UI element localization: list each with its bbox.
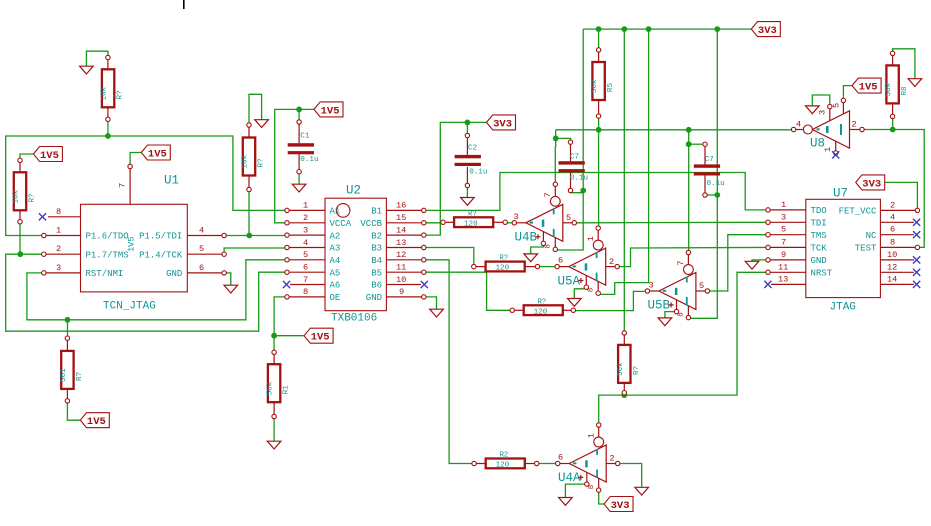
svg-text:1: 1 — [587, 433, 597, 438]
wire R7 bottom stub to net TDO — [107, 121, 109, 136]
svg-text:P1.7/TMS: P1.7/TMS — [86, 250, 129, 260]
svg-text:0.1u: 0.1u — [570, 175, 588, 183]
svg-text:7: 7 — [781, 237, 786, 247]
wire R? 120 second out to U5A in — [540, 266, 555, 268]
wire R? 120 third out to U5B in — [576, 291, 646, 310]
svg-text:R?: R? — [538, 298, 547, 306]
capacitor C7 first 0.1u — [559, 140, 589, 193]
svg-text:6: 6 — [890, 225, 895, 235]
svg-text:TCN_JTAG: TCN_JTAG — [103, 301, 156, 313]
node 1V5 flag VCCA — [314, 102, 343, 118]
ground U5B — [658, 318, 672, 326]
node 3V3 flag top line — [751, 22, 780, 37]
svg-text:15: 15 — [396, 213, 406, 223]
svg-text:B1: B1 — [371, 207, 382, 217]
svg-text:P1.5/TDI: P1.5/TDI — [139, 232, 182, 242]
svg-text:3V3: 3V3 — [611, 500, 630, 512]
svg-text:3: 3 — [514, 212, 519, 222]
svg-text:8: 8 — [588, 485, 596, 489]
svg-text:C2: C2 — [468, 145, 478, 153]
svg-text:R8: R8 — [901, 86, 909, 96]
node X U2.10 B6 unconnected — [421, 281, 428, 288]
junction top pull-up R7 at net TDO — [105, 133, 111, 139]
wire net TMS2: U5B out to U7.5 TMS — [710, 235, 768, 291]
svg-text:U5A: U5A — [558, 274, 581, 288]
op-amp U2 TXB0106 box — [285, 184, 426, 325]
svg-text:13: 13 — [396, 238, 406, 248]
wire junction down to C1 top — [298, 109, 300, 120]
svg-text:R2: R2 — [500, 452, 509, 460]
svg-text:8: 8 — [588, 288, 596, 292]
svg-text:C7: C7 — [570, 153, 579, 161]
svg-text:NC: NC — [866, 231, 877, 241]
resistor R? 561 — [60, 336, 84, 403]
op-amp U7 JTAG box — [766, 187, 920, 314]
svg-text:VCCB: VCCB — [360, 219, 382, 229]
wire R? 56k pull-up bottom to NRST — [623, 394, 625, 396]
svg-text:R?: R? — [468, 210, 477, 218]
svg-text:B3: B3 — [371, 244, 382, 254]
svg-text:1V5: 1V5 — [321, 105, 340, 117]
svg-text:0.1u: 0.1u — [707, 180, 725, 188]
wire U1.7 to 1V5 flag — [130, 153, 141, 165]
wire junction RST down to R? 561 top — [67, 320, 69, 336]
node X U7.6 unconnected — [913, 231, 920, 238]
junction C1 top 1V5 — [296, 107, 302, 113]
svg-text:14: 14 — [396, 225, 406, 235]
wire R5 top stub to 3V3 line — [598, 29, 600, 48]
svg-text:8: 8 — [56, 207, 61, 217]
node X U7.14 unconnected — [913, 281, 920, 288]
svg-text:P1.6/TDO: P1.6/TDO — [86, 232, 129, 242]
wire U4A out to ground — [620, 464, 641, 488]
wire U4B gnd pin to ground — [531, 246, 544, 254]
svg-text:11: 11 — [396, 263, 406, 273]
svg-text:R?: R? — [500, 255, 509, 263]
node X U8.1 unconnected — [832, 151, 839, 158]
resistor R? 120 second — [472, 255, 540, 273]
svg-text:2: 2 — [852, 119, 857, 129]
svg-text:1: 1 — [781, 200, 786, 210]
junction C7 first bottom on 3V3 drop — [580, 188, 586, 194]
junction C7 second top on drop — [686, 141, 692, 147]
svg-text:12: 12 — [396, 250, 406, 260]
wire net B1: U2.16 up over to U7.1 TDO — [424, 173, 768, 211]
junction 3V3 at U5A vcc drop — [646, 26, 652, 32]
wire R? 10k left top to 1V5 flag — [20, 154, 33, 159]
junction 3V3 at R5 — [596, 26, 602, 32]
svg-text:A3: A3 — [330, 244, 341, 254]
wire U5B gnd pin to ground — [665, 312, 677, 318]
wire 3V3 drop left: top line to U4B vcc pin — [555, 29, 583, 250]
wire 1V5S drop to U5B power pin — [687, 130, 689, 251]
svg-text:U2: U2 — [346, 184, 361, 198]
svg-text:1V5: 1V5 — [311, 332, 330, 344]
svg-text:GND: GND — [366, 293, 382, 303]
node 3V3 flag U4A — [604, 497, 633, 513]
junction C2 top 3V3 — [465, 120, 471, 126]
svg-text:8: 8 — [303, 287, 308, 297]
svg-text:3V3: 3V3 — [493, 118, 512, 130]
wire U1.6 GND to ground — [226, 273, 231, 285]
node X U7.13 unconnected — [764, 281, 771, 288]
junction TMS at pull-up — [17, 251, 23, 257]
svg-text:8: 8 — [890, 237, 895, 247]
ground U5A — [568, 299, 582, 307]
svg-text:11: 11 — [778, 262, 788, 272]
ground U4A left — [559, 498, 573, 506]
svg-text:3V3: 3V3 — [758, 25, 777, 37]
svg-text:4: 4 — [890, 212, 895, 222]
svg-text:5: 5 — [781, 225, 786, 235]
svg-text:6: 6 — [558, 453, 563, 463]
junction C7 second bottom — [714, 192, 720, 198]
wire net TCK: U1.5 jog to U2.A3 — [224, 248, 287, 252]
svg-text:3: 3 — [818, 110, 828, 115]
svg-text:4: 4 — [199, 226, 204, 236]
ground U2 GND — [430, 309, 444, 317]
svg-text:U1: U1 — [164, 174, 179, 188]
junction 1V5S bus at R5 — [596, 127, 602, 133]
svg-text:VCCA: VCCA — [330, 219, 352, 229]
svg-text:1: 1 — [586, 236, 596, 241]
wire net RST: U1.3 down-around to U2.A4 — [27, 260, 287, 320]
svg-text:GND: GND — [166, 269, 182, 279]
wire net TCK2: U5A out to U7.7 TCK — [619, 247, 768, 266]
node X U7.4 unconnected — [913, 219, 920, 226]
svg-text:561: 561 — [60, 368, 68, 382]
svg-text:14: 14 — [887, 274, 897, 284]
wire junction OE to 1V5 flag — [274, 335, 304, 337]
svg-text:FET_VCC: FET_VCC — [839, 207, 877, 217]
svg-text:R?: R? — [29, 193, 37, 202]
svg-text:TEST: TEST — [855, 244, 877, 254]
svg-text:TDI: TDI — [811, 219, 827, 229]
svg-text:R?: R? — [258, 158, 266, 167]
svg-text:10: 10 — [887, 250, 897, 260]
svg-text:A5: A5 — [330, 268, 341, 278]
svg-text:A4: A4 — [330, 256, 341, 266]
svg-text:TXB0106: TXB0106 — [331, 313, 377, 325]
svg-text:GND: GND — [811, 256, 827, 266]
wire R1 56k bottom to ground — [273, 419, 275, 442]
svg-text:B6: B6 — [371, 281, 382, 291]
svg-text:56k: 56k — [267, 381, 275, 395]
svg-text:C1: C1 — [300, 133, 310, 141]
svg-text:8: 8 — [545, 244, 553, 248]
capacitor C2 0.1u — [455, 133, 488, 187]
resistor R? 10k far-left — [13, 158, 37, 224]
node X U7.10 unconnected — [913, 256, 920, 263]
svg-text:NRST: NRST — [811, 269, 833, 279]
wire R7 top to ground — [86, 51, 108, 66]
junction OE pull-up — [271, 333, 277, 339]
wire C7 second bottom stub to junction — [707, 194, 717, 196]
svg-text:16: 16 — [396, 201, 406, 211]
svg-text:120: 120 — [534, 308, 548, 316]
op-amp U5A buffer — [555, 226, 619, 296]
svg-text:U7: U7 — [833, 187, 848, 201]
resistor R? 120 first — [441, 210, 508, 228]
wire net B4: U2.12 down to R2 120 — [424, 260, 472, 464]
ground U4A out — [635, 487, 649, 495]
wire U4A gnd pin to ground — [565, 484, 586, 497]
svg-text:B4: B4 — [371, 256, 382, 266]
ground U4B — [524, 254, 538, 262]
junction RST to R? 561 — [65, 317, 71, 323]
resistor R2 120 — [472, 452, 539, 470]
svg-text:9: 9 — [399, 287, 404, 297]
node 1V5 flag top-left — [33, 147, 62, 163]
svg-text:TDO: TDO — [811, 206, 827, 216]
svg-text:U4B: U4B — [515, 231, 538, 245]
svg-text:5: 5 — [699, 281, 704, 291]
wire net 3V3C: flag to C2 junction down to VCCB rail — [424, 122, 487, 235]
wire net TDO: U1.1 to top pull-up line to U2.A1 — [6, 136, 287, 236]
svg-text:C7: C7 — [705, 156, 714, 164]
svg-text:JTAG: JTAG — [830, 302, 856, 314]
svg-text:TMS: TMS — [811, 231, 827, 241]
svg-text:P1.4/TCK: P1.4/TCK — [139, 250, 183, 260]
svg-text:5: 5 — [566, 213, 571, 223]
ground R8 — [908, 79, 922, 87]
wire U4A vcc pin to 3V3 flag — [599, 492, 604, 504]
node 3V3 flag U7 FET_VCC — [856, 175, 885, 191]
svg-text:56k: 56k — [617, 362, 625, 376]
node X U1.8 unconnected — [39, 213, 46, 220]
node 1V5 flag U1 pin7 — [141, 145, 170, 161]
junction TDI at R? 10k mid — [246, 233, 252, 239]
svg-text:1: 1 — [823, 147, 833, 152]
wire junction down to C2 top — [466, 122, 468, 133]
svg-text:2: 2 — [610, 454, 615, 464]
wire R? 10k mid top to ground — [249, 94, 262, 125]
op-amp U5B buffer — [645, 250, 709, 319]
svg-text:R1: R1 — [283, 385, 291, 395]
resistor R? 120 third — [510, 298, 576, 316]
junction U8 out R8 — [890, 127, 896, 133]
svg-text:3: 3 — [649, 281, 654, 291]
svg-text:1V5: 1V5 — [148, 149, 167, 161]
junction C7 first top — [553, 136, 559, 142]
resistor R7 10k top-left — [101, 55, 125, 121]
frame tick top — [183, 0, 185, 9]
svg-text:TCK: TCK — [811, 244, 828, 254]
node 3V3 flag C2 — [487, 115, 516, 130]
wire net TDI: U1.4 to U2.A2 — [224, 235, 287, 237]
resistor R? 56k (NRST pull-up) — [617, 331, 641, 395]
wire U5A gnd pin to ground — [574, 289, 587, 299]
svg-text:120: 120 — [496, 265, 510, 273]
ground R1 — [267, 441, 281, 449]
op-amp U1 TCN_JTAG box — [42, 164, 227, 312]
svg-text:10: 10 — [396, 275, 406, 285]
wire U8 pin5 to 1V5 flag — [843, 86, 852, 99]
svg-text:2: 2 — [890, 200, 895, 210]
svg-text:B5: B5 — [371, 268, 382, 278]
ground C2 — [461, 198, 475, 206]
ground top-left — [80, 66, 94, 74]
svg-text:A6: A6 — [330, 281, 341, 291]
wire net OE: U2.OE to junction to 1V5 flag — [274, 297, 287, 351]
svg-text:R?: R? — [117, 90, 125, 99]
op-amp U4A buffer — [556, 423, 620, 493]
svg-text:3: 3 — [303, 225, 308, 235]
wire 3V3 drop through C7 second to U5B vcc pin — [690, 29, 717, 318]
svg-text:1: 1 — [303, 201, 308, 211]
wire net B3: U2.13 to R? 120 second — [424, 248, 474, 265]
wire C1 bottom to ground — [298, 174, 300, 184]
svg-text:OE: OE — [330, 293, 341, 303]
wire U2.15 VCCB to rail — [424, 222, 441, 224]
op-amp U4B buffer — [512, 182, 576, 252]
wire net 1V5S bus: C7 junction along to U8 input — [556, 130, 792, 147]
svg-text:U4A: U4A — [558, 471, 581, 485]
svg-text:7: 7 — [676, 261, 686, 266]
wire R? 561 bottom to 1V5 flag — [67, 402, 80, 420]
wire net TMS: U1.2 junction to left rail down to U2.A5 — [6, 254, 287, 331]
junction 1V5S bus at U5B power drop — [686, 127, 692, 133]
svg-text:R5: R5 — [607, 83, 615, 93]
capacitor C7 second 0.1u — [694, 142, 725, 197]
svg-text:2: 2 — [609, 257, 614, 267]
wire net TDI2: U4B out to U7.3 TDI — [577, 221, 769, 224]
svg-text:3: 3 — [781, 212, 786, 222]
svg-text:1V5: 1V5 — [87, 416, 106, 428]
wire R8 top to ground — [893, 49, 915, 79]
svg-text:3V3: 3V3 — [862, 178, 881, 190]
svg-text:56k: 56k — [591, 79, 599, 93]
resistor R? 10k mid (TDI pull) — [242, 123, 266, 192]
ground near C1 — [255, 120, 269, 128]
svg-text:U5B: U5B — [648, 299, 671, 313]
svg-text:RST/NMI: RST/NMI — [86, 269, 124, 279]
svg-text:5: 5 — [199, 244, 204, 254]
svg-text:A1: A1 — [330, 207, 341, 217]
svg-text:4: 4 — [796, 119, 801, 129]
wire C2 bottom to ground — [466, 188, 468, 198]
wire U7 GND pin9 to ground — [752, 260, 766, 261]
node 1V5 flag OE — [304, 328, 333, 344]
svg-text:56k: 56k — [885, 82, 893, 96]
svg-text:120: 120 — [464, 220, 478, 228]
svg-text:A2: A2 — [330, 231, 341, 241]
node X U7.12 unconnected — [913, 269, 920, 276]
wire junction down to U4B power pin — [554, 147, 556, 185]
wire junction up to R8 bottom — [892, 119, 894, 130]
svg-text:4: 4 — [303, 238, 308, 248]
svg-text:3: 3 — [56, 263, 61, 273]
svg-text:10k: 10k — [242, 154, 250, 168]
ground U8 — [806, 106, 820, 114]
svg-text:10k: 10k — [101, 86, 109, 100]
svg-text:1V5: 1V5 — [859, 82, 878, 94]
svg-text:B2: B2 — [371, 231, 382, 241]
resistor R5 56k — [591, 48, 615, 119]
svg-text:12: 12 — [887, 262, 897, 272]
wire R2 out to U4A in — [539, 463, 556, 465]
wire R? 120 first out to U4B in — [507, 222, 511, 224]
wire 3V3 to R? 56k pull-up top — [623, 29, 625, 331]
svg-text:7: 7 — [543, 192, 553, 197]
wire R? 10k left bottom to TMS junction — [19, 222, 21, 254]
svg-text:0.1u: 0.1u — [300, 156, 318, 164]
ground U1 GND — [224, 285, 238, 293]
node 1V5 flag U8 — [852, 78, 881, 94]
ground C1 — [292, 184, 306, 192]
svg-text:7: 7 — [303, 275, 308, 285]
wire C7 first bottom to 3V3 drop — [571, 191, 584, 193]
wire net 3V3 top line — [583, 28, 751, 30]
svg-text:R?: R? — [76, 372, 84, 381]
wire U8 pin3 to ground — [812, 95, 830, 106]
op-amp U8 inverter — [791, 98, 864, 155]
svg-text:9: 9 — [781, 250, 786, 260]
svg-text:5: 5 — [303, 250, 308, 260]
junction 3V3 at C7 second drop — [714, 26, 720, 32]
wire 3V3 drop to U5A vcc pin — [600, 29, 648, 294]
svg-text:1: 1 — [56, 226, 61, 236]
svg-text:6: 6 — [558, 256, 563, 266]
wire R5 bottom through junction to U5A power pin — [598, 118, 600, 226]
svg-text:2: 2 — [56, 244, 61, 254]
svg-text:2: 2 — [303, 213, 308, 223]
wire R? 10k mid bottom stub to TDI junction — [248, 190, 250, 236]
svg-text:6: 6 — [303, 263, 308, 273]
svg-text:6: 6 — [199, 263, 204, 273]
wire U8 out junction to R8 and down to U7.8 TEST — [864, 130, 924, 248]
svg-text:0.1u: 0.1u — [469, 168, 487, 176]
resistor R1 56k — [267, 350, 291, 419]
node X U2.7 A6 unconnected — [283, 281, 290, 288]
wire net NRST: U4A power pin up to line right to U7.11 — [599, 272, 768, 423]
svg-text:8: 8 — [678, 312, 686, 316]
wire net B5: U2.11 down to R? 120 third — [424, 272, 510, 310]
wire U2 GND pin9 to ground — [424, 297, 437, 309]
node 1V5 flag R? 561 — [80, 413, 109, 429]
wire junction right to C7 first top — [556, 138, 571, 140]
wire net 1V5A: flag to C1 junction to U2.VCCA — [275, 109, 314, 222]
wire C7 second top stub to 1V5S drop — [689, 143, 703, 145]
svg-text:7: 7 — [118, 183, 128, 188]
svg-text:1V5: 1V5 — [40, 150, 59, 162]
svg-text:R?: R? — [633, 366, 641, 375]
junction NRST pull-up — [621, 392, 627, 398]
svg-text:5: 5 — [832, 103, 842, 108]
svg-text:120: 120 — [496, 462, 510, 470]
junction 3V3 at R? 56k drop — [621, 26, 627, 32]
capacitor C1 0.1u — [288, 120, 319, 174]
resistor R8 56k — [885, 51, 909, 118]
svg-text:10k: 10k — [13, 189, 21, 203]
svg-text:13: 13 — [778, 274, 788, 284]
ground U7 GND — [745, 261, 759, 269]
wire U7 3V3 flag to FET_VCC pin2 — [884, 182, 918, 208]
